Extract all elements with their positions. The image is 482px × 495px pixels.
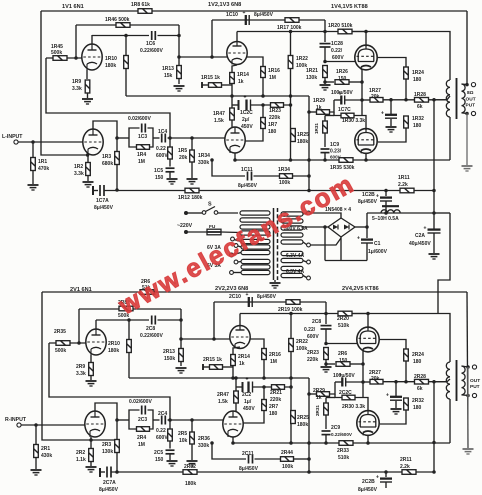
terminal mains bottom [184,230,188,234]
svg-text:2.2k: 2.2k [398,182,408,188]
node 181-320 [179,318,183,322]
node 76-58 [74,56,78,60]
svg-text:1C11: 1C11 [241,167,253,173]
resistor 1R14 [230,73,235,84]
ground elco lower [391,409,402,414]
tube 1V3 [225,127,245,153]
svg-text:2C10: 2C10 [229,294,241,300]
svg-text:8μ/450V: 8μ/450V [358,199,378,205]
wire box top right lower [148,410,154,420]
tube KT86 2V4 [357,327,379,352]
wire rail y31 [237,31,325,33]
node 233-378 [231,376,235,380]
svg-text:1R24: 1R24 [412,70,424,76]
node 309-459 [307,457,311,461]
svg-text:450V: 450V [243,406,255,412]
svg-text:1.1k: 1.1k [76,457,86,463]
PT HV winding loop 5 [281,240,303,244]
resistor 1R20 [338,29,352,34]
svg-text:510k: 510k [338,323,349,329]
svg-text:C2A: C2A [415,233,425,239]
wire 2V1b plate [95,403,117,420]
svg-text:+: + [243,10,246,16]
wire 1C7A lead [93,190,98,192]
wire screen rail y381 [363,381,370,383]
svg-text:+: + [246,292,249,298]
svg-text:2C5: 2C5 [154,450,163,456]
wire C2A top [433,213,435,229]
PT HV winding loop 2 [281,219,303,223]
wire tap down [324,227,326,261]
svg-text:2R15 1k: 2R15 1k [203,357,222,363]
svg-text:2R36: 2R36 [198,436,210,442]
terminal 63a [307,260,311,264]
wire 1C2C tap [232,104,238,106]
terminal heater b2 [230,271,234,275]
svg-text:R-INPUT: R-INPUT [5,417,27,423]
wire 2R14 top [233,347,240,355]
wire elco right lower [346,381,363,383]
wire KT86a plate side [379,340,406,350]
wire 2V2 cathode tab [202,364,204,370]
capacitor 2C elco lower [386,393,402,401]
svg-text:180k: 180k [105,63,116,69]
svg-text:2R32: 2R32 [412,398,424,404]
svg-text:2R31: 2R31 [315,405,320,416]
ground 2R13 [176,368,187,373]
node 368-443 [366,441,370,445]
svg-text:500k: 500k [55,348,66,354]
node 291-378 [289,376,293,380]
svg-text:2C11: 2C11 [242,451,254,457]
svg-text:1V1 6N1: 1V1 6N1 [62,4,84,10]
resistor 1R11 [400,188,414,193]
wire grid tail x46 [46,58,170,138]
wire 2R15 to 2R14 [223,366,234,368]
wire HV bottom to bridge [311,238,342,245]
svg-text:1k: 1k [316,395,322,401]
node 434-213 [432,211,436,215]
node 170-420 [168,418,172,422]
node 325-615 [323,60,327,64]
svg-text:0.02/600V: 0.02/600V [129,399,152,405]
node 368-313 [366,312,370,316]
node 406-381 [404,380,408,384]
capacitor 2C2 stub [242,382,244,392]
resistor 2R32c [404,398,409,410]
switch S [202,211,206,215]
node 117-420 [115,418,119,422]
wire rail y302 corner [325,302,327,314]
wire x212 cath lower [212,443,246,459]
wire 2R3 branch [116,420,118,472]
terminal out2 bottom [472,393,476,397]
wire rail y105 [251,104,291,106]
wire 2R36 gnd [191,444,193,460]
wire plate rail y36 [92,35,149,37]
capacitor 2C2B [376,474,392,482]
capacitor 1C7A stub [92,186,94,195]
svg-text:20k: 20k [179,155,188,161]
wire rail y381 right [383,379,450,382]
fuse FU [207,229,221,235]
node 291-96 [289,94,293,98]
svg-text:1C4: 1C4 [158,129,167,135]
terminal heater a3 [230,253,234,257]
svg-text:2R20: 2R20 [337,316,349,322]
svg-text:1M: 1M [138,159,145,165]
ground 2C5 [167,461,178,466]
wire to 2C4 [153,419,160,421]
PT heater winding b loop 1 [241,259,270,263]
resistor 2R24 [404,349,409,361]
svg-text:OUT: OUT [466,97,476,103]
terminal heater b1 [234,260,238,264]
capacitor 1C28 [320,44,331,47]
svg-text:1R16: 1R16 [268,68,280,74]
wire box left lower [117,419,129,421]
svg-text:5–10H 0.5A: 5–10H 0.5A [372,216,399,222]
svg-text:100μ/50V: 100μ/50V [331,90,353,96]
wire 1R5 drop [169,138,171,147]
svg-text:180: 180 [268,129,277,135]
PT heater winding a loop 3 [241,250,270,254]
ground 40u [386,127,397,132]
svg-text:1C28: 1C28 [331,41,343,47]
wire sec2 ground lead [467,367,469,448]
resistor 1R9 [85,80,90,93]
resistor 2R27 [370,379,383,384]
wire elco left [334,99,341,101]
tube 2V1a [86,329,106,355]
wire signal rail lower [168,419,224,421]
transformer T1 core [456,78,458,119]
wire 1R14 top [232,65,237,73]
resistor 2R10 [127,340,132,353]
ground 1R2 [83,182,94,187]
node 325-31 [323,30,327,34]
svg-text:180: 180 [269,411,278,417]
terminal out2 top [472,365,476,369]
svg-text:~220V: ~220V [177,223,193,229]
capacitor 2C10 [246,292,253,307]
resistor 2R47 [234,391,239,403]
terminal R input [17,423,21,427]
wire KT86a cathode [362,351,364,398]
svg-text:1R14: 1R14 [237,72,249,78]
resistor 1R47 [230,108,235,120]
wire 2R31 riser [326,397,335,399]
svg-text:1V2,1V3 6N8: 1V2,1V3 6N8 [208,2,241,8]
node 326-443 [324,441,328,445]
svg-text:8μ/450V: 8μ/450V [358,487,378,493]
svg-text:150: 150 [155,457,164,463]
svg-text:1R46 500k: 1R46 500k [105,17,130,23]
wire KT88b top [365,129,367,131]
ground 1R13 [174,86,185,91]
resistor 1R25 [291,129,296,142]
ground 1C5 [167,179,178,184]
wire box bottom right lower [150,420,153,429]
wire 1R5 to 1C5 [169,159,171,167]
wire 1R30 row [334,112,341,116]
svg-text:330k: 330k [198,160,209,166]
wire 2R29 to riser [330,382,336,394]
node 264-387 [262,385,266,389]
svg-text:6.3V 4A: 6.3V 4A [286,269,304,275]
svg-text:1R34: 1R34 [278,167,290,173]
wire KT88b cathode [365,153,367,161]
wire lower rail drop to T2 [467,292,468,448]
choke L1 [382,205,399,207]
node 179-57 [177,55,181,59]
wire 1V2 plate [236,32,238,42]
svg-text:1R22: 1R22 [296,56,308,62]
node 386-213 [384,211,388,215]
node 309-443 [307,441,311,445]
svg-text:470k: 470k [38,166,49,172]
wire elco right [345,99,362,101]
svg-text:600V: 600V [330,155,342,160]
wire grid tail x49 [49,343,170,420]
capacitor 1C7A [100,185,104,196]
svg-text:1.5k: 1.5k [218,399,228,405]
resistor 1R17 [285,18,299,23]
wire rail y443 [233,442,450,444]
wire 2R13 drop [180,309,182,366]
svg-text:2R1: 2R1 [41,446,50,452]
wire 2V1b cathode [90,437,92,440]
node 363-382 [361,380,365,384]
wire 2C2B drop [385,472,387,477]
svg-text:2R29: 2R29 [313,388,325,394]
wire T2 primary bottom [449,399,451,443]
svg-text:8μ/450V: 8μ/450V [238,183,258,189]
node 326-364 [324,362,328,366]
wire sec ground lead [466,114,468,166]
svg-text:PUT: PUT [470,384,480,390]
svg-text:2C2B: 2C2B [362,479,375,485]
wire 1R3 branch [116,138,118,190]
wire bus x434 [433,100,435,213]
svg-text:1R13: 1R13 [162,66,174,72]
node 309-112 [307,110,311,114]
svg-text:1C9: 1C9 [330,142,339,148]
svg-text:600V: 600V [307,334,319,340]
resistor 2R1 [34,445,39,458]
svg-text:1C6: 1C6 [146,41,155,47]
tube 2V3 [223,411,243,437]
wire 1C2B bottom [385,201,387,213]
wire 2C7A lead [100,471,105,473]
svg-text:6k: 6k [417,386,423,392]
wire 1R26 left [325,81,334,83]
svg-text:0.22: 0.22 [156,146,166,152]
svg-text:OUT: OUT [470,378,480,384]
wire box bottom branch lower [129,420,136,429]
ground 2R36 [187,461,198,466]
wire bus x309 lower [308,378,310,472]
node 325-160 [323,158,327,162]
terminal out bottom [471,111,475,115]
svg-text:600V: 600V [332,55,344,61]
resistor 1R31 [323,121,328,133]
wire box top branch lower [129,410,140,420]
resistor 2R28 [415,379,429,384]
svg-text:130k: 130k [102,449,113,455]
node 326-313 [324,312,328,316]
PT primary winding loop 2 [240,218,270,222]
ground 2R9 [86,381,97,386]
svg-text:1k: 1k [239,361,245,367]
capacitor 2C7A stub [99,468,101,477]
svg-text:2μ/: 2μ/ [242,117,250,123]
wire 1R15 to 1R14 [222,84,233,86]
svg-text:1R20 510k: 1R20 510k [328,23,353,29]
node 326-344 [324,342,328,346]
svg-text:1R29: 1R29 [313,98,325,104]
transformer T1 secondary [462,84,466,113]
ground 1R34a [187,179,198,184]
capacitor 2C8a [152,316,156,325]
svg-text:2R47: 2R47 [217,392,229,398]
svg-text:1R15 1k: 1R15 1k [201,75,220,81]
svg-text:100k: 100k [282,464,293,470]
wire grid 2V2 [181,338,230,340]
wire 1R10 drop [125,36,127,97]
wire 1R31 riser [325,115,334,117]
resistor 2R30 [342,395,355,400]
resistor 1R10 [124,56,129,69]
svg-text:1R25: 1R25 [297,132,309,138]
svg-text:2R7: 2R7 [269,404,278,410]
svg-text:1R11: 1R11 [398,175,410,181]
PT HV winding loop 1 [281,212,303,216]
node 192-420 [190,418,194,422]
node 264-378 [262,376,266,380]
wire 2C11 to 2R34 [255,458,281,460]
svg-text:1R3: 1R3 [102,154,111,160]
svg-text:+: + [244,95,247,101]
wire 2V1a cathode [90,355,92,362]
wire x214 drop [213,302,215,339]
PT 6.3V-2 winding loop 2 [281,273,303,277]
svg-text:510k: 510k [338,455,349,461]
tube KT86 2V5 [357,411,379,436]
wire 1R26 right [349,81,362,83]
PT primary winding loop 1 [240,211,270,215]
svg-text:2C8: 2C8 [146,326,155,332]
svg-text:2R13: 2R13 [163,349,175,355]
svg-text:20k: 20k [371,376,380,382]
PT primary winding loop 3 [240,225,270,229]
wire grid 1V2 [179,56,227,58]
capacitor 1C9 [321,149,330,153]
svg-text:+: + [339,373,342,379]
resistor 1R2 [86,163,91,176]
svg-text:15k: 15k [164,73,173,79]
ground PT core [274,280,276,282]
svg-text:2C9: 2C9 [331,425,340,431]
svg-text:100μ/50V: 100μ/50V [333,373,355,379]
resistor 1R16 [261,67,266,78]
wire B+ top rail left channel [41,10,467,12]
wire rail y309 [79,308,181,310]
svg-text:1M: 1M [138,442,145,448]
wire 1R34 right [293,175,310,177]
resistor 1R24 [404,67,409,79]
wire C1 drop [366,227,368,238]
svg-text:1R31: 1R31 [314,123,319,134]
resistor 1R29 [317,110,330,115]
node 363-364 [361,362,365,366]
wire 2R47 top [235,378,237,391]
wire heater a1 [234,240,241,242]
node 235-160 [233,158,237,162]
svg-text:1R9: 1R9 [72,79,81,85]
wire 2R23 gnd [325,360,327,367]
PT 6.3V-1 winding loop 2 [281,258,303,262]
svg-text:2C4: 2C4 [158,411,167,417]
wire heater a2 [238,246,241,247]
svg-text:0.22/: 0.22/ [331,48,343,54]
resistor 2R21 [272,385,285,390]
wire elco left lower [335,381,342,383]
wire box top right [148,128,154,138]
capacitor 1C11 [248,172,252,181]
svg-text:10k: 10k [179,438,188,444]
ground 1R9 [82,99,93,104]
node 406-99 [404,98,408,102]
wire 1C9 bottom [324,152,326,160]
node 117-472 [115,470,119,474]
resistor 2R23 [324,348,329,360]
wire 1V2 cathode tab [201,82,203,88]
node 434-442 [432,441,436,445]
wire input R [21,424,85,426]
ground sec2 [463,449,474,454]
svg-text:3.3k: 3.3k [72,86,82,92]
wire 2V2 plate [239,314,241,326]
node 290-31 [289,30,293,34]
node 179-36 [177,34,181,38]
svg-text:+: + [338,91,341,97]
svg-text:2R21: 2R21 [270,390,282,396]
wire rail y387 [253,386,292,388]
svg-text:1k: 1k [316,105,322,111]
svg-text:1R1: 1R1 [38,159,47,165]
svg-text:1R7: 1R7 [268,122,277,128]
wire top rail drop to output transformer secondary [466,11,468,85]
resistor 2R22 [289,339,294,352]
svg-text:180: 180 [413,123,422,129]
svg-text:600V: 600V [156,435,168,441]
svg-text:2R4: 2R4 [137,435,146,441]
capacitor 2C3 [142,406,146,415]
resistor 1R21 [323,66,328,78]
svg-text:0.22: 0.22 [156,428,166,434]
resistor 1R7 [261,118,266,129]
wire 2R30 row [335,394,342,398]
svg-text:2V2,2V3 6N8: 2V2,2V3 6N8 [215,286,248,292]
resistor 2R15 [210,365,223,370]
wire 1C2B drop [385,191,387,197]
bridge rectifier [328,218,355,237]
svg-text:1R2: 1R2 [74,164,83,170]
svg-text:150: 150 [339,358,348,364]
wire HV bottom stub [303,242,307,245]
wire left border feedback [41,11,88,155]
